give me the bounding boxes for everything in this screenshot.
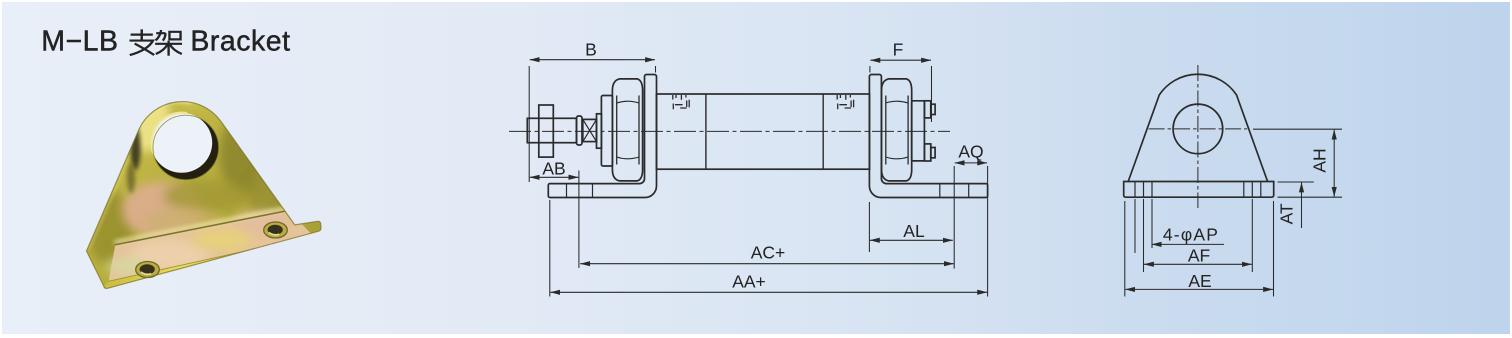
hex nut left — [612, 79, 642, 181]
base plate — [1124, 182, 1274, 198]
bracket silhouette — [87, 102, 322, 289]
dome outline with base — [1128, 74, 1267, 181]
base hole right — [264, 222, 288, 238]
dim AB line — [530, 176, 579, 178]
top boss — [924, 101, 930, 118]
port symbol left — [673, 95, 689, 109]
dim AQ line — [955, 162, 987, 164]
svg-text:Bracket: Bracket — [190, 26, 290, 58]
title CJK glyph 支 (hand drawn) — [130, 29, 155, 55]
silhouette edge tone — [87, 102, 322, 289]
horizontal centerline — [1149, 128, 1248, 130]
dim B extension lines — [528, 66, 530, 182]
collar left — [601, 96, 612, 167]
bend line — [115, 208, 290, 242]
dim AA+ extension left — [549, 200, 551, 297]
dim F extension lines — [869, 66, 871, 73]
rod — [527, 118, 576, 142]
rod lock nut — [539, 105, 554, 157]
AT dim line with up arrow — [1301, 183, 1303, 229]
dim AC+ line — [580, 263, 954, 265]
svg-text:AC+: AC+ — [751, 243, 786, 263]
base hole left — [136, 262, 160, 278]
dim AA+ line — [550, 291, 987, 293]
left bracket (L shape side view) — [548, 75, 656, 198]
front thickness strip — [104, 229, 321, 289]
port symbol right — [837, 95, 853, 109]
dim AL line — [870, 239, 953, 241]
svg-text:AE: AE — [1188, 271, 1211, 291]
AE dim line — [1125, 288, 1273, 290]
washer — [577, 116, 583, 145]
AH/AT bottom extension — [1278, 196, 1343, 198]
AH top extension — [1253, 128, 1342, 130]
plate shading blobs — [122, 80, 170, 152]
AF dim line — [1144, 263, 1252, 265]
cylinder body — [657, 94, 870, 169]
svg-text:B: B — [585, 40, 597, 60]
dim AB extension right — [578, 171, 580, 269]
svg-text:AB: AB — [542, 159, 565, 179]
AP leader underline — [1152, 243, 1224, 245]
front edge line — [109, 236, 314, 281]
svg-text:AL: AL — [903, 221, 925, 241]
bottom boss — [924, 144, 930, 161]
svg-text:F: F — [893, 40, 904, 60]
dim AL extension left — [868, 202, 870, 252]
base hole lines right — [1244, 182, 1261, 198]
svg-text:AA+: AA+ — [732, 272, 766, 292]
dim B line — [530, 59, 655, 61]
title CJK glyph 架 (hand drawn) — [155, 30, 182, 56]
spacer plate — [597, 114, 602, 148]
svg-text:AT: AT — [1277, 203, 1297, 224]
AF right extension — [1251, 199, 1253, 272]
AP extension lines — [1134, 199, 1136, 253]
svg-text:AQ: AQ — [958, 142, 983, 162]
dark sliver left of ring — [131, 126, 141, 170]
svg-text:4-φAP: 4-φAP — [1163, 225, 1219, 245]
AT top extension — [1278, 181, 1314, 183]
base hole lines left — [1135, 182, 1152, 198]
ring outer highlight top-left — [137, 100, 193, 127]
svg-text:M−LB: M−LB — [41, 26, 118, 58]
collar right — [912, 101, 925, 161]
right bracket (L shape side view, mirrored) — [869, 75, 987, 198]
svg-text:AF: AF — [1188, 246, 1210, 266]
left slope edge highlight — [88, 131, 139, 249]
base top face — [109, 210, 314, 282]
cap division lines — [706, 94, 823, 169]
dim AQ extension lines — [953, 166, 955, 269]
vertical centerline — [1197, 65, 1199, 208]
right foot hole lines — [940, 184, 969, 198]
centerline of cylinder axis — [509, 130, 950, 132]
AE extensions — [1124, 201, 1126, 297]
X-box coupling — [583, 119, 597, 141]
bore circle — [1173, 104, 1223, 154]
hex nut right — [882, 79, 912, 181]
ring inner hole (shows background through, dark bore crescent lower-right) — [153, 115, 219, 179]
title text M-LB Bracket — [41, 26, 290, 58]
dim F line — [870, 59, 931, 61]
left foot hole lines — [567, 184, 593, 198]
svg-text:AH: AH — [1310, 148, 1330, 172]
AH dim line — [1333, 130, 1335, 197]
